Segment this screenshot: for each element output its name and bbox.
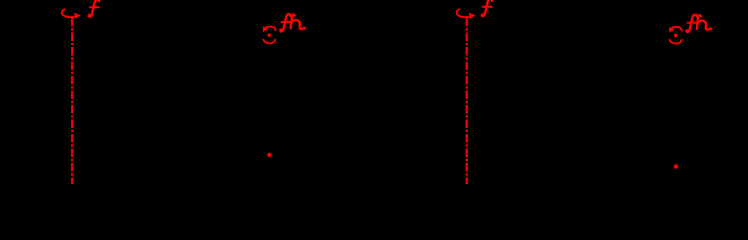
node axis1 : left rotation axis dash-dot line — [71, 18, 73, 184]
node pivot dot left — [267, 153, 271, 157]
node fh label left — [280, 14, 305, 31]
wire spin arrow right — [669, 27, 682, 44]
node axis2 : right rotation axis dash-dot line — [466, 18, 468, 184]
wire spin arrow left — [263, 26, 276, 43]
wire rotation arrow right — [457, 9, 476, 19]
node f label left — [89, 0, 99, 17]
node f label right — [482, 0, 492, 16]
wire rotation arrow left — [62, 9, 81, 19]
node fh label right — [687, 15, 712, 32]
node pivot dot right — [674, 164, 679, 169]
